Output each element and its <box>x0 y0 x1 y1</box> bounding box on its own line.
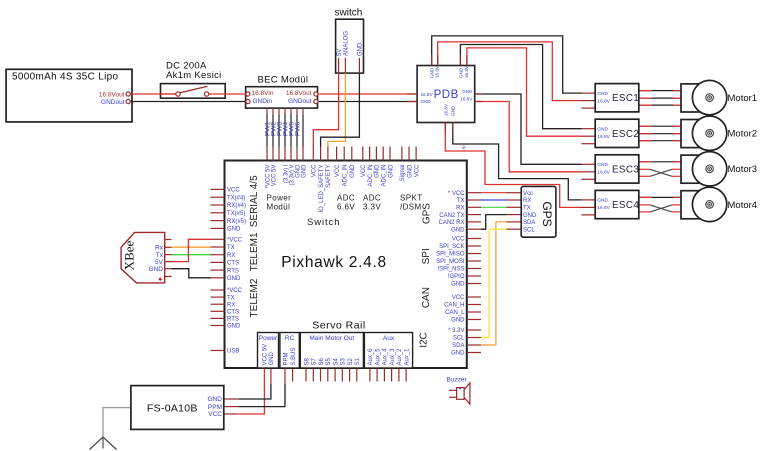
svg-text:FS-0A10B: FS-0A10B <box>147 403 198 415</box>
svg-text:* 3.3V: * 3.3V <box>448 328 464 334</box>
svg-text:GND: GND <box>301 164 307 178</box>
svg-text:S5: S5 <box>326 357 332 365</box>
svg-text:RX: RX <box>227 253 235 259</box>
svg-text:PW6: PW6 <box>294 122 301 136</box>
svg-text:TX(#4): TX(#4) <box>227 195 245 201</box>
svg-text:*VCC: *VCC <box>227 288 243 294</box>
svg-text:GND: GND <box>350 164 356 178</box>
svg-text:RC: RC <box>285 335 295 342</box>
svg-text:5V: 5V <box>337 49 343 56</box>
svg-text:Aux_5: Aux_5 <box>375 348 381 366</box>
svg-text:Motor2: Motor2 <box>728 129 758 140</box>
svg-text:ADC_IN: ADC_IN <box>382 165 388 187</box>
svg-text:TX(#5): TX(#5) <box>227 211 245 217</box>
svg-text:/DSM: /DSM <box>400 203 422 212</box>
svg-text:Aux_6: Aux_6 <box>368 348 374 366</box>
svg-text:ESC3: ESC3 <box>612 164 639 175</box>
svg-text:Power: Power <box>267 194 292 203</box>
svg-text:USB: USB <box>227 349 239 355</box>
svg-text:Aux_1: Aux_1 <box>404 348 410 366</box>
svg-text:S1: S1 <box>355 357 361 365</box>
svg-text:Ak1m Kesici: Ak1m Kesici <box>166 70 222 81</box>
svg-text:GND: GND <box>227 227 241 233</box>
svg-text:S7: S7 <box>312 357 318 365</box>
svg-text:RX: RX <box>227 302 235 308</box>
svg-text:16.8V: 16.8V <box>597 170 610 176</box>
svg-text:ANALOG: ANALOG <box>344 31 350 56</box>
svg-text:ADC_IN: ADC_IN <box>368 165 374 187</box>
svg-text:16.8V: 16.8V <box>464 65 469 78</box>
svg-text:SPI_SCK: SPI_SCK <box>439 244 464 250</box>
svg-text:IO_LED_SAFETY: IO_LED_SAFETY <box>319 165 325 213</box>
svg-text:SPI_MOSI: SPI_MOSI <box>436 259 465 265</box>
svg-text:16.8V: 16.8V <box>597 98 610 104</box>
svg-text:GND: GND <box>597 162 608 168</box>
svg-text:I2C: I2C <box>419 332 430 348</box>
svg-text:Main Motor Out: Main Motor Out <box>309 335 354 342</box>
svg-text:TX: TX <box>227 245 235 251</box>
svg-text:CAN: CAN <box>421 287 432 308</box>
svg-text:Aux_4: Aux_4 <box>383 348 389 366</box>
svg-text:16.8Vout: 16.8Vout <box>286 90 312 97</box>
svg-text:SPI: SPI <box>421 248 432 264</box>
svg-text:Aux_2: Aux_2 <box>397 348 403 366</box>
svg-text:RX(#4): RX(#4) <box>227 203 246 209</box>
svg-text:PDB: PDB <box>434 89 459 101</box>
svg-text:GND: GND <box>421 99 432 104</box>
svg-text:GND: GND <box>227 324 241 330</box>
svg-text:Rx: Rx <box>155 245 164 252</box>
svg-text:TX: TX <box>227 295 235 301</box>
svg-text:VCC: VCC <box>208 411 222 418</box>
svg-text:Pixhawk 2.4.8: Pixhawk 2.4.8 <box>281 254 387 271</box>
svg-text:GND: GND <box>149 266 164 273</box>
svg-text:Tx: Tx <box>156 252 164 259</box>
svg-text:* VCC: * VCC <box>448 191 465 197</box>
svg-text:RTS: RTS <box>227 268 239 274</box>
svg-text:ADC: ADC <box>337 194 355 203</box>
svg-text:*VCC: *VCC <box>227 238 243 244</box>
svg-text:SCL: SCL <box>523 227 535 233</box>
svg-text:GND: GND <box>597 127 608 133</box>
svg-text:VCC: VCC <box>414 164 420 177</box>
svg-text:ADC: ADC <box>363 194 381 203</box>
svg-text:5V: 5V <box>155 259 164 266</box>
svg-text:SCL: SCL <box>453 336 465 342</box>
svg-text:Servo Rail: Servo Rail <box>312 320 365 332</box>
svg-text:GND: GND <box>451 318 465 324</box>
svg-text:XBee: XBee <box>122 240 137 270</box>
svg-text:Switch: Switch <box>307 217 340 228</box>
svg-text:VCC: VCC <box>312 164 318 177</box>
svg-text:VCC: VCC <box>227 188 240 194</box>
svg-text:GND: GND <box>523 213 537 219</box>
svg-text:GND: GND <box>597 198 608 204</box>
svg-text:!GPIO: !GPIO <box>448 274 465 280</box>
svg-text:Aux_3: Aux_3 <box>390 348 396 366</box>
svg-text:CTS: CTS <box>227 310 239 316</box>
svg-text:CAN2 TX: CAN2 TX <box>439 213 464 219</box>
svg-text:16.8Vout: 16.8Vout <box>99 91 125 98</box>
svg-text:GND: GND <box>451 227 465 233</box>
svg-text:RX(#5): RX(#5) <box>227 219 246 225</box>
svg-text:16.8V: 16.8V <box>444 103 449 116</box>
svg-text:VCC: VCC <box>452 295 465 301</box>
svg-text:GND: GND <box>208 396 223 403</box>
svg-text:16.8V: 16.8V <box>597 205 610 211</box>
svg-text:S2: S2 <box>348 357 354 365</box>
svg-text:S6: S6 <box>319 357 325 365</box>
svg-text:16.8V: 16.8V <box>435 65 440 78</box>
svg-text:RX: RX <box>523 198 531 204</box>
svg-text:16.8V: 16.8V <box>421 92 434 97</box>
svg-text:CAN_L: CAN_L <box>445 310 465 316</box>
svg-text:GND: GND <box>388 164 394 178</box>
svg-text:TX: TX <box>523 206 531 212</box>
svg-text:Vcc: Vcc <box>523 191 533 197</box>
svg-text:CAN2 RX: CAN2 RX <box>438 220 464 226</box>
svg-text:GNDout: GNDout <box>101 99 125 106</box>
svg-text:ESC1: ESC1 <box>612 93 639 104</box>
svg-text:3.3V: 3.3V <box>363 203 381 212</box>
svg-text:TELEM2: TELEM2 <box>249 278 260 317</box>
svg-text:TX: TX <box>457 198 465 204</box>
svg-text:GND: GND <box>227 276 241 282</box>
svg-text:ESC2: ESC2 <box>612 129 639 140</box>
svg-text:16.8V: 16.8V <box>597 134 610 140</box>
svg-text:S8: S8 <box>304 357 310 365</box>
svg-text:ESC4: ESC4 <box>612 200 639 211</box>
svg-text:VCC: VCC <box>335 164 341 177</box>
svg-text:BEC Modül: BEC Modül <box>258 74 309 85</box>
svg-text:VCC: VCC <box>452 237 465 243</box>
svg-text:switch: switch <box>335 8 363 19</box>
svg-text:GND: GND <box>407 164 413 178</box>
svg-text:S4: S4 <box>333 357 339 365</box>
svg-text:Motor4: Motor4 <box>728 200 758 211</box>
svg-text:Modül: Modül <box>267 203 291 212</box>
svg-text:S3: S3 <box>341 357 347 365</box>
svg-text:VCC 5V: VCC 5V <box>271 165 277 187</box>
svg-text:S.BUS: S.BUS <box>291 347 297 365</box>
svg-text:GNDin: GNDin <box>253 98 273 105</box>
svg-text:VCC 5V: VCC 5V <box>263 344 269 366</box>
svg-text:!SPI_NSS: !SPI_NSS <box>437 267 464 273</box>
svg-text:GND: GND <box>597 91 608 97</box>
svg-text:VCC: VCC <box>361 164 367 177</box>
svg-text:Buzzer: Buzzer <box>446 377 467 384</box>
svg-text:CAN_H: CAN_H <box>444 303 464 309</box>
svg-text:GNDout: GNDout <box>288 98 312 105</box>
svg-text:Signal: Signal <box>400 165 406 182</box>
svg-text:GND: GND <box>451 105 456 116</box>
svg-text:SPI_MISO: SPI_MISO <box>436 252 465 258</box>
svg-text:GPS: GPS <box>422 203 433 224</box>
svg-text:PPM: PPM <box>208 404 222 411</box>
svg-text:SPKT: SPKT <box>400 194 423 203</box>
svg-text:16.8V: 16.8V <box>460 97 473 102</box>
svg-text:GND: GND <box>462 89 473 94</box>
svg-text:GND: GND <box>451 282 465 288</box>
svg-text:SDA: SDA <box>452 343 464 349</box>
svg-text:5000mAh 4S 35C Lipo: 5000mAh 4S 35C Lipo <box>12 72 118 83</box>
svg-text:GND: GND <box>358 42 364 56</box>
svg-text:SAFETY: SAFETY <box>326 165 332 188</box>
svg-text:SERIAL 4/5: SERIAL 4/5 <box>249 175 260 227</box>
svg-text:Motor3: Motor3 <box>728 164 758 175</box>
svg-text:Aux: Aux <box>383 335 395 342</box>
svg-text:TELEM1: TELEM1 <box>249 232 260 271</box>
svg-text:GND: GND <box>375 164 381 178</box>
svg-text:6.6V: 6.6V <box>337 203 355 212</box>
svg-text:16.8Vin: 16.8Vin <box>252 90 274 97</box>
svg-text:GND: GND <box>458 67 463 78</box>
svg-text:CTS: CTS <box>227 261 239 267</box>
svg-text:Power: Power <box>259 335 278 342</box>
svg-text:RTS: RTS <box>227 317 239 323</box>
svg-text:SDA: SDA <box>523 220 535 226</box>
svg-text:GND: GND <box>451 351 465 357</box>
svg-text:Motor1: Motor1 <box>728 93 758 104</box>
svg-text:PPM: PPM <box>283 352 289 365</box>
svg-text:RX: RX <box>456 206 464 212</box>
svg-text:GPS: GPS <box>540 201 554 226</box>
svg-text:GND: GND <box>269 352 275 366</box>
svg-text:ADC_IN: ADC_IN <box>343 165 349 187</box>
